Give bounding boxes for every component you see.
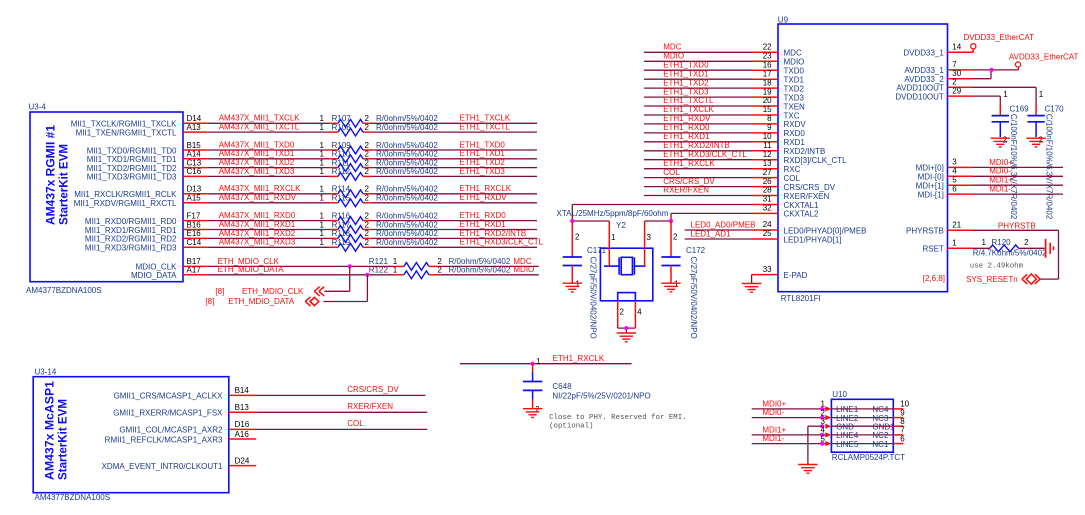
svg-text:1: 1: [320, 150, 325, 159]
wire net ETH1_RXCLK: [644, 159, 753, 169]
svg-text:[8]: [8]: [215, 287, 224, 296]
svg-text:MDI1+: MDI1+: [989, 176, 1013, 185]
wire net AM437X_MII1_TXCTL: [207, 123, 329, 133]
U9 pin 1 RSET: [922, 239, 973, 254]
svg-text:RTL8201FI: RTL8201FI: [781, 294, 821, 303]
svg-text:R/0ohm/5%/0402: R/0ohm/5%/0402: [376, 238, 438, 247]
U9 pin 21 PHYRSTB: [906, 221, 973, 236]
U3-4 pin F17 MII1_RXD0/RGMII1_RD0: [85, 211, 207, 226]
resistor R122 R/0ohm/5%/0402: [369, 266, 511, 279]
svg-text:2: 2: [535, 405, 540, 414]
wire net ETH1_RXCLK at C648: [460, 354, 632, 364]
svg-text:AVDD33_EtherCAT: AVDD33_EtherCAT: [1009, 53, 1079, 62]
svg-text:AM4377BZDNA100S: AM4377BZDNA100S: [26, 286, 102, 295]
svg-text:TXD3: TXD3: [784, 93, 805, 102]
svg-text:R/0ohm/5%/0402: R/0ohm/5%/0402: [376, 194, 438, 203]
wire net ETH1_TXD1: [372, 149, 537, 159]
svg-text:R107: R107: [332, 114, 352, 123]
svg-text:CRS/CRS_DV: CRS/CRS_DV: [784, 183, 836, 192]
svg-text:1: 1: [320, 123, 325, 132]
svg-text:AM437X_MII1_RXD0: AM437X_MII1_RXD0: [219, 211, 296, 220]
resistor R117 R/0ohm/5%/0402: [320, 220, 439, 233]
wire net MDC: [438, 257, 539, 267]
svg-text:ETH1_TXD3: ETH1_TXD3: [460, 167, 506, 176]
wire net ETH1_RXD2/INTB: [644, 141, 753, 151]
svg-text:1: 1: [674, 280, 679, 289]
svg-text:2: 2: [365, 158, 370, 167]
resistor R107 R/0ohm/5%/0402: [320, 114, 439, 127]
wire net AM437X_MII1_RXD0: [207, 211, 329, 221]
wire net MDI0+ to U10: [752, 400, 826, 409]
svg-text:15: 15: [763, 105, 772, 114]
junction U10 pin 3: [820, 424, 824, 428]
U3-4 pin C14 MII1_RXD3/RGMII1_RD3: [85, 238, 207, 253]
wire net ETH1_RXD3/CLK_CTL: [644, 150, 753, 160]
U3-4 pin C13 MII1_TXD2/RGMII1_TD2: [87, 158, 208, 173]
svg-text:2: 2: [1038, 136, 1043, 145]
ground at U10: [798, 465, 817, 474]
svg-text:AM437X_MII1_TXD3: AM437X_MII1_TXD3: [219, 167, 295, 176]
U3-14 pin B14 GMII1_CRS/MCASP1_ACLKX: [114, 386, 257, 401]
svg-text:AM437X_MII1_RXD3: AM437X_MII1_RXD3: [219, 238, 296, 247]
U3-4 pin B16 MII1_RXD1/RGMII1_RD1: [85, 220, 207, 235]
svg-text:MII1_TXD0/RGMII1_TD0: MII1_TXD0/RGMII1_TD0: [87, 146, 177, 155]
junction AVDD33: [990, 68, 994, 72]
svg-text:31: 31: [763, 195, 772, 204]
svg-text:1: 1: [320, 167, 325, 176]
wire net ETH1_TXD0: [372, 140, 537, 150]
svg-text:11: 11: [763, 141, 772, 150]
svg-text:MDI-[1]: MDI-[1]: [918, 190, 944, 199]
wire net COL: [256, 419, 427, 429]
wire net AM437X_MII1_TXD1: [207, 149, 329, 159]
U10 pin 4 LINE4 / pin 7 NC2: [821, 426, 906, 441]
IC U10 RCLAMP0524P.TCT: [831, 390, 905, 462]
svg-text:RXD0: RXD0: [784, 129, 806, 138]
U9 pin 6 MDI-[1]: [918, 184, 973, 199]
wire net ETH1_RXD3/CLK_CTL: [372, 238, 544, 248]
svg-text:9: 9: [767, 123, 772, 132]
svg-text:ETH_MDIO_DATA: ETH_MDIO_DATA: [218, 265, 285, 274]
svg-text:16: 16: [763, 60, 772, 69]
svg-text:2: 2: [365, 114, 370, 123]
svg-text:CKXTAL1: CKXTAL1: [784, 201, 820, 210]
U9 pin 24 LED0/PHYAD[0]/PMEB: [753, 220, 867, 235]
wire net MDI1+: [973, 176, 1063, 186]
svg-text:Close to PHY. Reserved for EMI: Close to PHY. Reserved for EMI.: [549, 414, 687, 422]
svg-text:MDI1-: MDI1-: [989, 185, 1011, 194]
svg-text:R/0ohm/5%/0402: R/0ohm/5%/0402: [376, 185, 438, 194]
wire net MDI1-: [973, 185, 1063, 195]
wire net CKXTAL2: [671, 213, 753, 221]
svg-text:ETH1_TXCTL: ETH1_TXCTL: [460, 123, 511, 132]
svg-text:33: 33: [763, 265, 772, 274]
resistor R119 R/0ohm/5%/0402: [320, 238, 439, 251]
wire net ETH1_RXD2/INTB: [372, 229, 537, 239]
svg-text:23: 23: [763, 52, 772, 61]
U9 pin 10 RXD1: [753, 132, 806, 147]
svg-text:B15: B15: [187, 141, 202, 150]
svg-text:ETH1_TXCTL: ETH1_TXCTL: [663, 96, 714, 105]
svg-text:AM437x RGMII #1: AM437x RGMII #1: [44, 124, 57, 225]
off-page connector SYS_RESETn: [966, 274, 1040, 284]
svg-text:COL: COL: [347, 419, 364, 428]
svg-text:B16: B16: [187, 220, 202, 229]
wire net AM437X_MII1_RXD2: [207, 229, 329, 239]
wire net AM437X_MII1_RXD1: [207, 220, 329, 230]
svg-text:MII1_TXD2/RGMII1_TD2: MII1_TXD2/RGMII1_TD2: [87, 164, 177, 173]
wire net RXER/FXEN: [256, 402, 427, 412]
svg-text:1: 1: [1039, 90, 1044, 99]
svg-text:ETH1_TXCLK: ETH1_TXCLK: [663, 105, 714, 114]
svg-text:MII1_TXD1/RGMII1_TD1: MII1_TXD1/RGMII1_TD1: [87, 155, 177, 164]
svg-text:R/0ohm/5%/0402: R/0ohm/5%/0402: [449, 266, 511, 275]
svg-text:AM437X_MII1_TXD0: AM437X_MII1_TXD0: [219, 140, 295, 149]
resistor R115 R/0ohm/5%/0402: [320, 194, 439, 207]
svg-text:MDI+[1]: MDI+[1]: [916, 182, 944, 191]
svg-text:ETH1_TXD3: ETH1_TXD3: [663, 87, 709, 96]
svg-text:29: 29: [952, 86, 961, 95]
svg-text:4: 4: [952, 167, 957, 176]
ground at C648: [523, 409, 542, 418]
svg-text:StarterKit EVM: StarterKit EVM: [57, 399, 70, 480]
U9 pin 18 TXD2: [753, 78, 805, 93]
svg-text:MDI0-: MDI0-: [762, 408, 784, 417]
svg-text:TXD2: TXD2: [784, 84, 805, 93]
wire net ETH1_TXD3: [372, 167, 537, 177]
U9 pin 33 E-PAD: [752, 265, 808, 280]
svg-text:ETH1_TXD2: ETH1_TXD2: [663, 78, 709, 87]
wire to off-page ETH_MDIO_CLK: [324, 266, 349, 291]
svg-text:COL: COL: [784, 174, 801, 183]
svg-text:2: 2: [365, 211, 370, 220]
svg-text:5: 5: [952, 175, 957, 184]
U9 pin 22 MDC: [753, 43, 802, 58]
svg-text:ETH1_RXD1: ETH1_RXD1: [460, 220, 507, 229]
svg-text:AM437X_MII1_TXCLK: AM437X_MII1_TXCLK: [219, 114, 301, 123]
U10 pin 2 LINE2 / pin 9 NC3: [821, 408, 906, 423]
U9 pin 23 MDIO: [753, 52, 805, 67]
svg-text:D16: D16: [235, 420, 250, 429]
svg-text:NC1: NC1: [872, 440, 889, 449]
ground at C172: [661, 283, 680, 292]
svg-text:AM437X_MII1_RXD2: AM437X_MII1_RXD2: [219, 229, 296, 238]
svg-text:[2,6,8]: [2,6,8]: [923, 274, 945, 283]
wire crystal pin 1: [572, 221, 616, 266]
svg-text:1: 1: [320, 220, 325, 229]
svg-text:E16: E16: [187, 229, 202, 238]
wire net CKXTAL1: [572, 205, 752, 222]
U9 pin 13 RXC: [753, 159, 801, 174]
U9 pin 7 AVDD33_1: [904, 60, 973, 75]
svg-text:LINE1: LINE1: [836, 405, 859, 414]
wire net ETH1_RXD0: [372, 211, 537, 221]
svg-text:R/0ohm/5%/0402: R/0ohm/5%/0402: [376, 141, 438, 150]
svg-text:GMII1_COL/MCASP1_AXR2: GMII1_COL/MCASP1_AXR2: [119, 426, 223, 435]
off-page connector ETH_MDIO_CLK: [215, 287, 324, 296]
svg-text:8: 8: [900, 417, 905, 426]
svg-text:RXER/FXEN: RXER/FXEN: [663, 186, 709, 195]
wire net ETH_MDIO_DATA: [207, 265, 395, 275]
wire net AM437X_MII1_RXCLK: [207, 184, 329, 194]
svg-text:ETH1_RXD0: ETH1_RXD0: [460, 211, 507, 220]
svg-text:MDI0+: MDI0+: [762, 400, 786, 409]
svg-text:ETH_MDIO_CLK: ETH_MDIO_CLK: [242, 287, 304, 296]
svg-text:D14: D14: [187, 114, 202, 123]
svg-text:COL: COL: [663, 168, 680, 177]
junction XTAL2: [669, 219, 673, 223]
U9 pin 5 MDI+[1]: [916, 175, 973, 190]
capacitor C648 NI/22pF/5%/25V/0201/NPO: [523, 357, 651, 414]
svg-text:MII1_RXD3/RGMII1_RD3: MII1_RXD3/RGMII1_RD3: [85, 244, 177, 253]
ground at C169: [991, 138, 1010, 147]
svg-text:E-PAD: E-PAD: [784, 271, 808, 280]
svg-text:RSET: RSET: [922, 245, 943, 254]
U3-14 pin A16 RMII1_REFCLK/MCASP1_AXR3: [105, 430, 257, 445]
resistor R116 R/0ohm/5%/0402: [320, 211, 439, 224]
off-page connector ETH_MDIO_DATA: [205, 297, 318, 306]
svg-text:6: 6: [900, 434, 905, 443]
svg-text:17: 17: [763, 69, 772, 78]
svg-text:MDI+[0]: MDI+[0]: [916, 164, 944, 173]
U9 pin 14 DVDD33_1: [903, 43, 973, 58]
svg-text:R/0ohm/5%/0402: R/0ohm/5%/0402: [376, 158, 438, 167]
ground at C171: [563, 283, 582, 292]
svg-text:MDI1+: MDI1+: [762, 426, 786, 435]
svg-text:MII1_RXD1/RGMII1_RD1: MII1_RXD1/RGMII1_RD1: [85, 226, 177, 235]
ground at R120 (rotated): [1046, 239, 1054, 258]
svg-text:D13: D13: [187, 185, 202, 194]
capacitor C172 C/27pF/50V/0402/NPO: [661, 221, 705, 339]
junction U10 pin 1: [820, 407, 824, 411]
svg-text:2: 2: [437, 266, 442, 275]
svg-text:PHYRSTB: PHYRSTB: [998, 222, 1036, 231]
svg-text:1: 1: [576, 280, 581, 289]
svg-text:R122: R122: [369, 266, 389, 275]
svg-text:C/27pF/50V/0402/NPO: C/27pF/50V/0402/NPO: [689, 257, 698, 339]
wire net ETH1_RXD1: [372, 220, 537, 230]
U9 pin 12 RXD[3]/CLK_CTL: [753, 150, 848, 165]
svg-text:2: 2: [365, 238, 370, 247]
svg-text:PHYRSTB: PHYRSTB: [906, 227, 944, 236]
svg-text:1: 1: [393, 266, 398, 275]
wire net ETH1_TXD2: [644, 78, 753, 88]
wire net LED0_AD0/PMEB: [685, 221, 756, 230]
svg-text:XTAL/25MHz/5ppm/8pF/60ohm: XTAL/25MHz/5ppm/8pF/60ohm: [557, 209, 669, 218]
svg-text:RXD[3]/CLK_CTL: RXD[3]/CLK_CTL: [784, 156, 848, 165]
U9 pin 11 RXD2/INTB: [753, 141, 826, 156]
resistor R112 R/0ohm/5%/0402: [320, 167, 439, 180]
svg-text:F17: F17: [187, 211, 201, 220]
svg-text:2: 2: [673, 233, 678, 242]
svg-text:U10: U10: [832, 390, 847, 399]
svg-text:GND1: GND1: [872, 423, 895, 432]
power symbol DVDD33_EtherCAT: [964, 33, 1035, 53]
wire net AM437X_MII1_TXCLK: [207, 114, 329, 124]
U3-4 pin A15 MII1_RXDV/RGMII1_RXCTL: [74, 194, 207, 209]
resistor R111 R/0ohm/5%/0402: [320, 158, 439, 171]
svg-text:LINE5: LINE5: [836, 440, 859, 449]
resistor R108 R/0ohm/5%/0402: [320, 123, 439, 136]
U3-14 pin D16 GMII1_COL/MCASP1_AXR2: [119, 420, 256, 435]
svg-text:2: 2: [575, 233, 580, 242]
svg-text:7: 7: [952, 60, 957, 69]
wire net ETH1_RXD0: [644, 123, 753, 133]
svg-text:R/0ohm/5%/0402: R/0ohm/5%/0402: [376, 167, 438, 176]
svg-text:1: 1: [320, 185, 325, 194]
svg-text:ETH1_RXD1: ETH1_RXD1: [663, 132, 710, 141]
svg-text:MII1_RXCLK/RGMII1_RCLK: MII1_RXCLK/RGMII1_RCLK: [74, 190, 177, 199]
U3-14 pin D24 XDMA_EVENT_INTR0/CLKOUT1: [102, 456, 257, 471]
IC U3-14 AM437x McASP1 StarterKit EVM: [33, 368, 229, 503]
svg-text:3: 3: [952, 158, 957, 167]
svg-text:2: 2: [620, 307, 625, 316]
svg-text:SYS_RESETn: SYS_RESETn: [966, 275, 1018, 284]
IC U9 RTL8201FI Ethernet PHY: [778, 16, 948, 304]
wire net ETH1_RXCLK: [372, 184, 537, 194]
svg-text:2: 2: [365, 123, 370, 132]
U10 pin 5 LINE5 / pin 6 NC1: [821, 434, 906, 449]
U3-4 pin D14 MII1_TXCLK/RGMII1_TXCLK: [71, 114, 208, 129]
svg-text:1: 1: [320, 229, 325, 238]
svg-text:MDI0-: MDI0-: [989, 167, 1011, 176]
svg-text:2: 2: [365, 194, 370, 203]
junction C648: [531, 362, 535, 366]
svg-text:R/4.7Kohm/5%/0402: R/4.7Kohm/5%/0402: [973, 249, 1047, 258]
svg-text:14: 14: [952, 43, 961, 52]
U9 pin 17 TXD1: [753, 69, 805, 84]
svg-text:13: 13: [763, 159, 772, 168]
junction XTAL1: [570, 219, 574, 223]
wire net ETH1_TXCLK: [644, 105, 753, 115]
resistor R120 R/4.7Kohm/5%/0402: [972, 238, 1047, 257]
svg-text:2: 2: [365, 229, 370, 238]
U3-14 pin B13 GMII1_RXERR/MCASP1_FSX: [113, 403, 256, 418]
svg-text:MDC: MDC: [663, 43, 681, 52]
U9 pin 9 RXD0: [753, 123, 806, 138]
svg-text:1: 1: [952, 239, 957, 248]
svg-text:AVDD10OUT: AVDD10OUT: [896, 84, 944, 93]
svg-text:7: 7: [900, 426, 905, 435]
wire net LED1_AD1: [685, 230, 753, 239]
svg-text:GMII1_CRS/MCASP1_ACLKX: GMII1_CRS/MCASP1_ACLKX: [114, 392, 224, 401]
svg-text:10: 10: [763, 132, 772, 141]
U3-4 pin A14 MII1_TXD1/RGMII1_TD1: [87, 150, 208, 165]
svg-text:1: 1: [320, 114, 325, 123]
svg-text:A16: A16: [235, 430, 250, 439]
svg-text:AM437X_MII1_TXD2: AM437X_MII1_TXD2: [219, 158, 295, 167]
U9 pin 29 DVDD10OUT: [895, 86, 973, 101]
svg-text:DVDD33_EtherCAT: DVDD33_EtherCAT: [964, 33, 1035, 42]
svg-text:8: 8: [767, 114, 772, 123]
svg-text:R/0ohm/5%/0402: R/0ohm/5%/0402: [376, 150, 438, 159]
svg-text:MII1_TXD3/RGMII1_TD3: MII1_TXD3/RGMII1_TD3: [87, 173, 177, 182]
svg-text:1: 1: [320, 238, 325, 247]
svg-text:ETH1_TXCLK: ETH1_TXCLK: [460, 114, 511, 123]
net label XTAL/25MHz/5ppm/8pF/60ohm: [557, 209, 669, 218]
wire net AM437X_MII1_TXD2: [207, 158, 329, 168]
svg-text:1: 1: [1003, 90, 1008, 99]
svg-text:MII1_RXDV/RGMII1_RXCTL: MII1_RXDV/RGMII1_RXCTL: [74, 199, 177, 208]
svg-text:RCLAMP0524P.TCT: RCLAMP0524P.TCT: [832, 453, 905, 462]
svg-text:1: 1: [611, 233, 616, 242]
U9 pin 15 TXC: [753, 105, 800, 120]
wire crystal pin 3: [645, 221, 671, 266]
note use 2.49kohm: [970, 263, 1024, 271]
svg-text:C14: C14: [187, 238, 202, 247]
svg-text:LED0/PHYAD[0]/PMEB: LED0/PHYAD[0]/PMEB: [784, 226, 867, 235]
wire to off-page ETH_MDIO_DATA: [323, 275, 367, 302]
wire E-PAD to ground: [751, 275, 753, 284]
wire net CRS/CRS_DV: [256, 385, 425, 395]
U9 pin 32 CKXTAL2: [753, 204, 820, 219]
wire net ETH1_RXDV: [372, 193, 537, 203]
svg-text:GND: GND: [836, 423, 854, 432]
svg-text:R108: R108: [332, 123, 352, 132]
svg-text:NI/22pF/5%/25V/0201/NPO: NI/22pF/5%/25V/0201/NPO: [552, 391, 650, 400]
svg-text:R119: R119: [332, 238, 351, 247]
wire net AM437X_MII1_RXD3: [207, 238, 329, 248]
ground at E-PAD: [742, 284, 761, 293]
ground at crystal: [617, 333, 636, 342]
resistor R121 R/0ohm/5%/0402: [369, 257, 511, 270]
svg-text:2: 2: [1003, 136, 1008, 145]
svg-text:ETH1_TXD2: ETH1_TXD2: [460, 158, 506, 167]
svg-text:MDI0+: MDI0+: [989, 158, 1013, 167]
svg-text:AM437X_MII1_TXCTL: AM437X_MII1_TXCTL: [219, 123, 300, 132]
wire net ETH1_TXCTL: [644, 96, 753, 106]
svg-text:TXD1: TXD1: [784, 76, 805, 85]
svg-text:R109: R109: [332, 141, 352, 150]
svg-text:TXEN: TXEN: [784, 102, 806, 111]
resistor R114 R/0ohm/5%/0402: [320, 185, 439, 198]
svg-text:2: 2: [365, 167, 370, 176]
resistor R109 R/0ohm/5%/0402: [320, 141, 439, 154]
junction U10 pin 2: [820, 416, 824, 420]
svg-text:12: 12: [763, 150, 772, 159]
svg-text:R/0ohm/5%/0402: R/0ohm/5%/0402: [376, 123, 438, 132]
crystal Y2 25MHz: [600, 221, 652, 316]
svg-text:C13: C13: [187, 158, 202, 167]
U9 pin 28 RXER/FXEN: [753, 186, 830, 201]
resistor R110 R/0ohm/5%/0402: [320, 150, 439, 163]
svg-text:D24: D24: [235, 456, 250, 465]
svg-text:ETH1_TXD0: ETH1_TXD0: [663, 60, 709, 69]
svg-text:ETH1_RXDV: ETH1_RXDV: [663, 114, 711, 123]
svg-text:C16: C16: [187, 167, 202, 176]
svg-text:ETH1_RXD2/INTB: ETH1_RXD2/INTB: [663, 141, 730, 150]
svg-text:RMII1_REFCLK/MCASP1_AXR3: RMII1_REFCLK/MCASP1_AXR3: [105, 435, 223, 444]
svg-text:TXC: TXC: [784, 111, 800, 120]
resistor R118 R/0ohm/5%/0402: [320, 229, 439, 242]
svg-text:MII1_RXD2/RGMII1_RD2: MII1_RXD2/RGMII1_RD2: [85, 235, 177, 244]
wire net ETH1_TXCTL: [372, 123, 537, 133]
svg-text:R112: R112: [332, 167, 351, 176]
svg-text:A14: A14: [187, 150, 202, 159]
wire net RXER/FXEN: [644, 186, 753, 196]
wire net ETH1_TXD1: [644, 69, 753, 79]
wire net ETH1_RXD1: [644, 132, 753, 142]
svg-text:CRS/CRS_DV: CRS/CRS_DV: [663, 177, 715, 186]
svg-text:R118: R118: [332, 229, 351, 238]
svg-text:MII1_TXCLK/RGMII1_TXCLK: MII1_TXCLK/RGMII1_TXCLK: [71, 120, 177, 129]
svg-text:ETH_MDIO_DATA: ETH_MDIO_DATA: [228, 297, 295, 306]
svg-text:28: 28: [763, 186, 772, 195]
svg-text:AM437X_MII1_RXCLK: AM437X_MII1_RXCLK: [219, 184, 301, 193]
svg-text:ETH1_RXD3/CLK_CTL: ETH1_RXD3/CLK_CTL: [460, 238, 544, 247]
svg-text:ETH1_TXD0: ETH1_TXD0: [460, 140, 506, 149]
svg-text:3: 3: [647, 233, 652, 242]
